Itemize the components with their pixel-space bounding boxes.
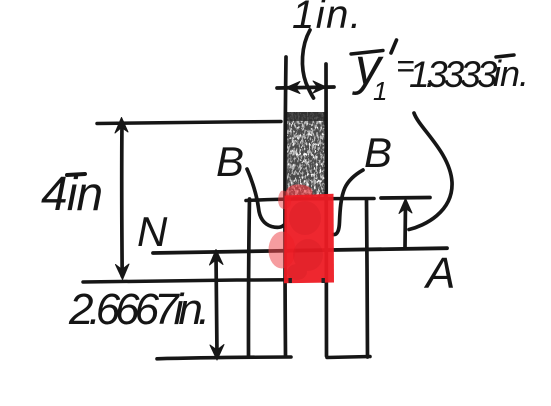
neutral axis N-A [153,248,447,253]
arrowheads [115,81,412,360]
bottom line left leg + extension line of 2.6667 dim [157,357,291,359]
leader from 1in. label [302,30,313,98]
overbar of y [351,51,383,55]
prime mark [391,40,397,53]
left B leader [247,169,284,227]
ybar dim up-arrow [399,199,412,214]
1in left arrow [286,82,301,94]
stem right edge / extension line [324,64,328,356]
main red rectangle [284,194,334,283]
right small dimension vertical (ybar) [403,203,407,248]
svg-text:B: B [364,129,392,176]
macron over i of 4in [67,174,85,175]
red marker highlight [269,184,335,283]
stem left edge / extension line [285,57,286,356]
flange top extension (right, to dim arrow) [381,196,430,200]
light red round blob left of rect [269,232,296,269]
svg-text:1: 1 [373,76,387,106]
light red left smudge [278,191,291,209]
bottom line right leg [327,357,370,358]
darker red pencil show-through inside [287,201,323,280]
svg-text:3333: 3333 [427,54,498,95]
2.6667 top up-arrow [210,250,224,266]
leader from ybar label (s-curve) [409,113,452,230]
4in top up-arrow [115,118,128,134]
svg-text:N: N [137,208,168,255]
1in dimension arrow line [277,87,334,88]
4in bottom down-arrow [116,264,130,280]
4in dimension vertical line [120,122,124,276]
ybar1' = 1.3333 in. composite label [351,38,528,106]
macron over in [496,55,514,57]
right B leader [334,170,364,235]
small black nubs at red bottom edge (stem lines peeking) [289,278,292,283]
2.6667 dimension vertical line [216,255,217,355]
svg-text:1in.: 1in. [292,0,363,37]
4in bottom extension line (stem bottom level) [83,280,289,282]
svg-text:2.6667in.: 2.6667in. [68,285,205,334]
right outer vertical of section [367,200,368,357]
shaded stem area 1 (pencil scribble) [287,112,326,198]
1in right arrow [313,81,327,93]
flange top line [246,199,374,201]
2.6667 bottom down-arrow [210,345,224,361]
left outer vertical of section [248,199,249,356]
light red top bump blob [286,184,313,198]
svg-text:B: B [216,138,244,185]
4in top extension line [97,122,281,124]
svg-text:in.: in. [493,53,528,94]
svg-text:A: A [423,249,455,298]
